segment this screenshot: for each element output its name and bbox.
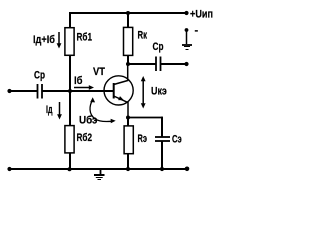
node Rб2 rail junction [68, 167, 72, 171]
wire emitter node to Rэ [127, 118, 129, 126]
transistor VT emitter lead [114, 96, 128, 118]
wire Cр to base [43, 90, 114, 92]
svg-text:Rб1: Rб1 [77, 32, 93, 44]
svg-text:+Uип: +Uип [190, 9, 213, 21]
svg-text:Cэ: Cэ [172, 133, 182, 145]
wire emitter node to Cэ branch [128, 117, 163, 119]
ground bottom center [94, 169, 105, 180]
wire Rк to collector node [127, 55, 129, 64]
wire base junction to Rб2 [69, 91, 71, 126]
wire bottom rail [10, 168, 188, 170]
svg-text:Cр: Cр [153, 41, 164, 53]
node input terminal [7, 89, 11, 93]
resistor Rб2 [65, 126, 74, 153]
wire Cр to output terminal [161, 63, 187, 65]
svg-text:-: - [195, 25, 199, 37]
wire Rб2 to bottom rail [69, 153, 71, 169]
wire Rэ to bottom rail [127, 154, 129, 170]
svg-text:Iд+Iб: Iд+Iб [33, 34, 55, 46]
svg-text:Iд: Iд [46, 104, 53, 116]
svg-text:Uбэ: Uбэ [79, 115, 98, 127]
voltage arrow Uбэ curved [90, 97, 116, 123]
wire input to Cр [10, 90, 38, 92]
current arrow Iд [57, 102, 62, 120]
svg-text:Rб2: Rб2 [77, 132, 93, 144]
capacitor Cр (input) plates [38, 84, 43, 99]
node +Uип terminal [184, 11, 188, 15]
transistor VT base bar [113, 83, 115, 99]
capacitor Cр (output) plates [156, 57, 161, 72]
transistor VT emitter arrow [118, 96, 124, 100]
current arrow Iд+Iб [57, 32, 62, 49]
transistor VT collector lead [114, 64, 128, 85]
node Cэ rail junction [160, 167, 164, 171]
resistor Rэ [124, 126, 133, 154]
svg-text:Rэ: Rэ [138, 133, 148, 145]
wire left branch rail to Rб1 [69, 12, 71, 28]
resistor Rб1 [65, 28, 74, 56]
svg-text:VT: VT [93, 66, 105, 78]
wire Cэ branch lower [161, 142, 163, 170]
current arrow Iб [74, 85, 94, 90]
ground supply minus top right [182, 28, 192, 49]
svg-text:Cр: Cр [34, 70, 45, 82]
capacitor Cэ plates [155, 137, 170, 141]
wire collector branch rail to Rк [127, 12, 129, 28]
node output terminal [184, 62, 188, 66]
transistor VT body circle [104, 76, 133, 105]
node base junction [68, 89, 72, 93]
node bottom-right terminal [185, 167, 190, 172]
wire collector node to Cр (output) [128, 63, 156, 65]
wire Cэ branch upper [161, 117, 163, 137]
svg-text:Uкэ: Uкэ [151, 86, 167, 98]
node collector junction [126, 62, 130, 66]
wire top rail [69, 12, 188, 14]
svg-text:Rк: Rк [138, 30, 148, 42]
wire Rб1 to base junction [69, 56, 71, 93]
node Rэ rail junction [126, 167, 130, 171]
resistor Rк [124, 27, 133, 55]
node emitter junction [126, 116, 130, 120]
voltage arrow Uкэ [141, 76, 146, 109]
node bottom-left terminal [7, 167, 11, 171]
node rail junction [126, 11, 130, 15]
svg-text:Iб: Iб [74, 75, 83, 87]
